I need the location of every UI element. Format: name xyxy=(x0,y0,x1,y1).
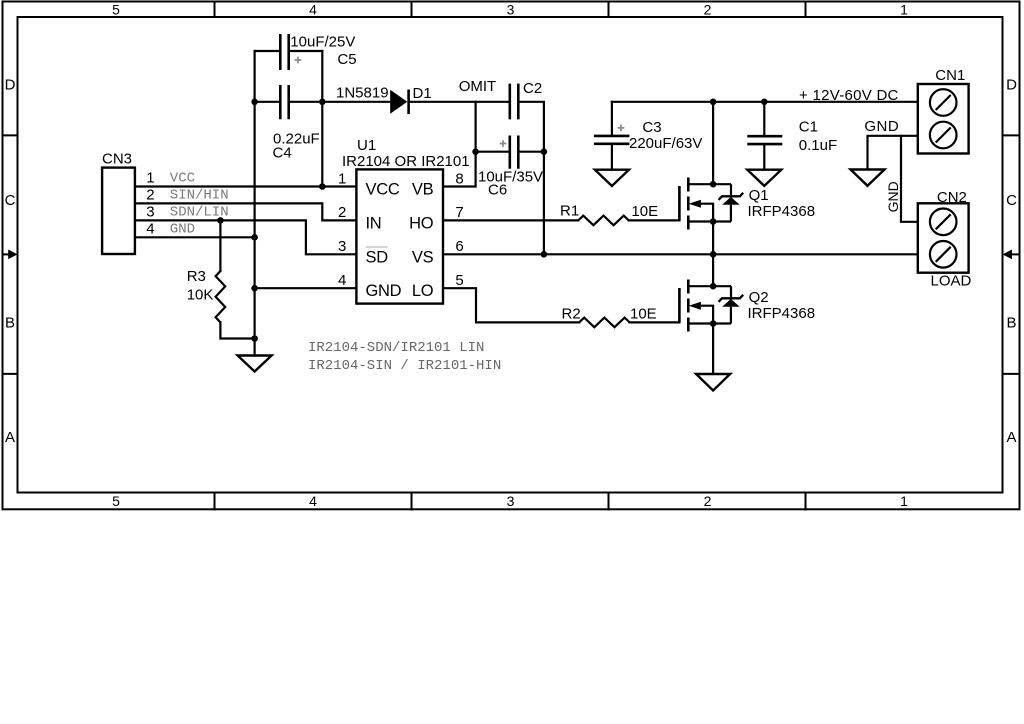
diode D1 xyxy=(390,90,408,115)
wire GND left vertical (C5/C4 left to ground) xyxy=(254,51,256,356)
capacitor C5 plus sign xyxy=(295,57,302,64)
wire CN3 pin2 SIN/HIN to U1 IN xyxy=(135,203,357,220)
svg-text:10K: 10K xyxy=(187,287,214,304)
svg-text:IN: IN xyxy=(366,214,382,232)
svg-text:LOAD: LOAD xyxy=(931,273,972,290)
IC U1 box xyxy=(356,169,443,303)
wire top rail C3 to CN1 xyxy=(612,101,918,103)
svg-text:2: 2 xyxy=(146,186,154,203)
svg-text:VB: VB xyxy=(412,181,434,199)
wire GND vertical CN1 to CN2 xyxy=(901,136,918,222)
svg-text:IR2104-SIN / IR2101-HIN: IR2104-SIN / IR2101-HIN xyxy=(308,358,501,374)
wire C5 right to VCC vertical xyxy=(289,50,323,52)
wire CN3 pin1 VCC to U1 xyxy=(135,185,357,187)
wire C4 right xyxy=(289,101,323,103)
wire C4 left xyxy=(255,101,281,103)
svg-text:1: 1 xyxy=(338,170,346,187)
svg-text:8: 8 xyxy=(455,170,463,187)
svg-text:GND: GND xyxy=(170,221,195,237)
svg-text:2: 2 xyxy=(704,493,712,509)
svg-text:U1: U1 xyxy=(357,137,376,154)
svg-text:A: A xyxy=(5,429,15,446)
svg-text:3: 3 xyxy=(507,2,515,18)
connector CN3 box xyxy=(102,168,135,254)
svg-text:3: 3 xyxy=(338,238,346,255)
svg-text:4: 4 xyxy=(309,2,317,18)
svg-text:10uF/25V: 10uF/25V xyxy=(290,34,355,51)
svg-text:5: 5 xyxy=(455,272,463,289)
resistor R2 xyxy=(579,318,630,328)
wire VCC vertical (C5/C4 right to U1 pin1) xyxy=(321,51,323,187)
capacitor C2 plates xyxy=(510,84,519,120)
svg-text:+ 12V-60V DC: + 12V-60V DC xyxy=(799,87,899,104)
svg-text:SIN/HIN: SIN/HIN xyxy=(170,187,229,203)
frame centre arrowhead left xyxy=(8,250,17,260)
transistor Q1 xyxy=(679,178,688,230)
svg-text:IR2104 OR IR2101: IR2104 OR IR2101 xyxy=(342,153,470,170)
svg-text:Q1: Q1 xyxy=(749,187,769,204)
svg-text:D: D xyxy=(1006,77,1017,94)
svg-text:C1: C1 xyxy=(799,119,818,136)
transistor Q2 xyxy=(679,280,688,332)
ground symbol left xyxy=(238,356,272,372)
junction dots xyxy=(217,99,768,342)
svg-text:1: 1 xyxy=(146,170,154,187)
capacitor C3 plus sign xyxy=(618,125,625,132)
ground symbol near CN1 xyxy=(851,170,885,186)
svg-text:SD: SD xyxy=(366,248,389,266)
svg-text:HO: HO xyxy=(409,214,434,232)
svg-text:0.1uF: 0.1uF xyxy=(799,137,837,154)
IC U1 pin names xyxy=(366,181,434,301)
svg-text:1N5819: 1N5819 xyxy=(336,85,389,102)
wire rail to D1 anode xyxy=(322,101,390,103)
svg-text:D1: D1 xyxy=(413,85,432,102)
wire R3 top lead xyxy=(219,220,221,271)
wire C5 top left xyxy=(255,50,281,52)
svg-text:OMIT: OMIT xyxy=(459,78,497,95)
svg-text:R1: R1 xyxy=(560,203,579,220)
svg-text:D: D xyxy=(5,77,16,94)
resistor R1 xyxy=(578,216,629,226)
svg-text:GND: GND xyxy=(366,282,402,300)
frame row letters right xyxy=(1006,77,1017,447)
wire Q1 source to Q2 drain through VS xyxy=(712,222,714,287)
border frame inner xyxy=(18,17,1003,493)
svg-text:C3: C3 xyxy=(642,119,661,136)
svg-text:5: 5 xyxy=(112,493,120,509)
svg-text:A: A xyxy=(1006,429,1016,446)
svg-text:2: 2 xyxy=(338,204,346,221)
svg-text:CN2: CN2 xyxy=(937,189,967,206)
border frame outer xyxy=(3,2,1020,510)
svg-text:IRFP4368: IRFP4368 xyxy=(748,203,816,220)
svg-text:VCC: VCC xyxy=(170,171,195,187)
connector CN1 xyxy=(918,84,969,154)
svg-text:4: 4 xyxy=(338,272,346,289)
svg-text:4: 4 xyxy=(146,220,154,237)
ground symbol under Q2 xyxy=(696,374,730,391)
svg-text:3: 3 xyxy=(146,203,154,220)
capacitor C3 xyxy=(594,136,630,144)
wire VB branch (rail down to U1 pin8) xyxy=(443,102,476,187)
capacitor C6 plus sign xyxy=(500,140,507,147)
svg-text:GND: GND xyxy=(864,118,899,135)
svg-text:VS: VS xyxy=(412,248,434,266)
wire CN3 pin3 SDN/LIN to U1 SD xyxy=(135,220,357,254)
ground symbol under C1 xyxy=(747,170,781,186)
ground symbol under C3 xyxy=(595,170,629,186)
frame centre arrow right xyxy=(1013,253,1020,255)
wire Q2 source to ground xyxy=(712,324,714,375)
svg-text:7: 7 xyxy=(455,204,463,221)
svg-text:10E: 10E xyxy=(630,306,657,323)
frame column ticks bottom xyxy=(215,493,806,510)
wire D1 cathode to C2 xyxy=(409,101,510,103)
wire U1 GND pin4 xyxy=(255,287,357,289)
wire CN3 pin4 GND xyxy=(135,236,255,238)
svg-text:4: 4 xyxy=(309,493,317,509)
frame column numbers top xyxy=(5,2,1018,510)
svg-text:IRFP4368: IRFP4368 xyxy=(748,305,816,322)
resistor R3 xyxy=(216,271,226,322)
connector CN2 xyxy=(918,203,969,272)
svg-text:R2: R2 xyxy=(562,306,581,323)
frame column ticks top xyxy=(215,2,806,18)
svg-text:C2: C2 xyxy=(523,80,542,97)
connector CN3 net labels xyxy=(170,171,229,238)
wire VS line U1 pin6 to CN2 xyxy=(443,253,918,255)
wire R3 bottom lead to GND xyxy=(220,322,254,338)
wire C1 bottom lead xyxy=(763,144,765,170)
svg-text:6: 6 xyxy=(455,238,463,255)
frame row ticks right xyxy=(1003,135,1020,374)
wire C2 right down to VS xyxy=(518,102,544,255)
frame row letters left xyxy=(5,77,16,447)
wire R2 to Q2 gate xyxy=(630,321,680,323)
svg-text:VCC: VCC xyxy=(366,181,400,199)
svg-text:1: 1 xyxy=(900,493,908,509)
svg-text:CN3: CN3 xyxy=(102,151,132,168)
svg-text:LO: LO xyxy=(412,282,434,300)
wire C6 right xyxy=(518,151,544,153)
IC U1 SD overline xyxy=(366,246,388,248)
capacitor C4 plates xyxy=(280,85,288,119)
frame centre arrow left xyxy=(3,253,10,255)
svg-text:C: C xyxy=(5,192,16,209)
svg-text:C6: C6 xyxy=(488,182,507,199)
svg-text:1: 1 xyxy=(900,2,908,18)
wire CN1 GND to ground xyxy=(868,136,918,170)
wire C6 left xyxy=(476,151,510,153)
frame centre arrowhead right xyxy=(1003,250,1013,260)
capacitor C6 plates xyxy=(510,136,519,169)
svg-text:GND: GND xyxy=(885,181,901,212)
svg-text:2: 2 xyxy=(704,2,712,18)
svg-text:B: B xyxy=(5,314,15,331)
capacitor C1 xyxy=(747,136,782,144)
frame row ticks left xyxy=(3,135,18,374)
svg-text:5: 5 xyxy=(112,2,120,18)
svg-text:10E: 10E xyxy=(631,203,658,220)
svg-text:B: B xyxy=(1006,314,1016,331)
connector CN3 pin numbers xyxy=(146,170,154,238)
svg-text:C5: C5 xyxy=(337,51,356,68)
IC U1 pin numbers xyxy=(338,170,464,289)
svg-text:R3: R3 xyxy=(187,268,206,285)
wire C3 top lead xyxy=(611,102,613,136)
wire U1 HO pin7 to R1 xyxy=(443,219,578,221)
capacitor C5 plates xyxy=(280,34,288,70)
wire U1 LO pin5 to R2 xyxy=(443,288,579,322)
svg-text:CN1: CN1 xyxy=(935,67,965,84)
svg-text:C: C xyxy=(1006,192,1017,209)
wire R1 to Q1 gate xyxy=(629,219,680,221)
svg-text:Q2: Q2 xyxy=(749,289,769,306)
wire C3 bottom lead xyxy=(611,144,613,170)
wire Q1 drain stub to rail xyxy=(712,102,714,184)
svg-text:3: 3 xyxy=(507,493,515,509)
svg-text:IR2104-SDN/IR2101 LIN: IR2104-SDN/IR2101 LIN xyxy=(308,340,484,356)
wire C1 top lead xyxy=(763,102,765,136)
svg-text:220uF/63V: 220uF/63V xyxy=(629,135,702,152)
svg-text:C4: C4 xyxy=(273,145,292,162)
